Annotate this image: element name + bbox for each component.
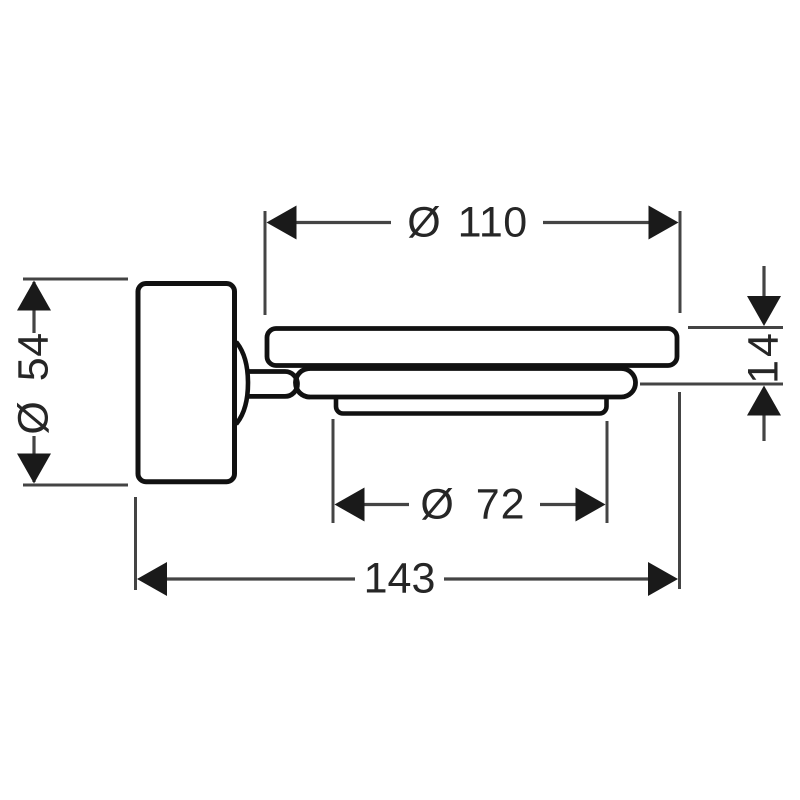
dim Ø110 arrow right	[649, 206, 679, 240]
dim Ø54 extension line top	[23, 278, 128, 281]
svg-text:14: 14	[740, 330, 788, 384]
dim Ø54 line upper segment	[32, 282, 35, 333]
dim 14 extension line top	[688, 326, 783, 329]
dim Ø72 extension line right	[606, 421, 609, 523]
dim Ø72 arrow right	[576, 488, 606, 522]
dim Ø54 extension line bottom	[23, 484, 128, 487]
wall mount plate	[138, 284, 235, 482]
dim 143 arrow left	[137, 562, 167, 596]
dim 14 extension line bottom	[640, 383, 783, 386]
wall escutcheon arc	[232, 343, 248, 423]
dim 14 arrow up	[747, 386, 781, 416]
holder ring (stadium)	[296, 369, 636, 398]
dim Ø110 arrow left	[267, 206, 297, 240]
dim Ø110 extension line right	[679, 211, 682, 313]
dim Ø110 line right segment	[543, 221, 650, 224]
ring left cap arc (redrawn over stem)	[296, 369, 310, 398]
dim 143 extension line left	[134, 497, 137, 590]
dim 143 extension line right	[678, 392, 681, 589]
svg-text:Ø 54: Ø 54	[10, 332, 58, 434]
dim 143 line right segment	[444, 577, 649, 580]
dim Ø110 line left segment	[294, 221, 391, 224]
junction bowtie fill	[294, 375, 300, 393]
dim Ø54 line lower segment	[32, 436, 35, 482]
dim Ø72 line left segment	[363, 503, 409, 506]
dim Ø54 arrow down	[17, 454, 51, 484]
dish rim (top plate)	[267, 329, 677, 366]
dim Ø72 arrow left	[335, 488, 365, 522]
dim Ø54 arrow up	[17, 281, 51, 311]
dim 143 arrow right	[648, 562, 678, 596]
svg-text:Ø 110: Ø 110	[407, 199, 527, 247]
support stem	[246, 372, 297, 397]
dim Ø110 extension line left	[264, 211, 267, 315]
dim Ø72 line right segment	[540, 503, 577, 506]
dim 14 upper leader	[762, 266, 765, 298]
dim Ø72 extension line left	[332, 419, 335, 523]
dim 143 line left segment	[166, 577, 355, 580]
svg-text:Ø 72: Ø 72	[420, 481, 525, 529]
svg-text:143: 143	[364, 555, 436, 603]
dim 14 lower leader	[762, 414, 765, 441]
soap dish bottom tray	[336, 383, 607, 414]
dim 14 arrow down	[747, 296, 781, 326]
